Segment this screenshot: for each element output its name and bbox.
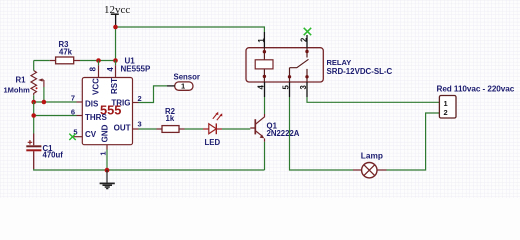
svg-text:SRD-12VDC-SL-C: SRD-12VDC-SL-C <box>327 67 393 76</box>
IC U1 NE555P 555 timer <box>69 57 151 156</box>
wire DIS net <box>34 101 77 103</box>
node junction 12vcc <box>113 25 118 30</box>
pin 7 DIS <box>77 101 83 103</box>
resistor R2 <box>157 107 185 133</box>
relay SRD-12VDC-SL-C <box>246 28 393 97</box>
svg-text:NE555P: NE555P <box>121 65 151 74</box>
svg-text:CV: CV <box>85 130 97 139</box>
wire TRIG to sensor <box>139 86 168 103</box>
svg-text:1: 1 <box>181 82 185 91</box>
svg-text:TRIG: TRIG <box>111 99 130 108</box>
node junction THRS <box>31 113 36 118</box>
wire THRS net <box>34 115 77 117</box>
wire R3 left <box>34 60 50 62</box>
supply 12vcc <box>104 4 130 27</box>
wire R2 to LED <box>185 128 204 130</box>
no-connect X on CV <box>69 134 75 140</box>
node junction wiper <box>42 100 47 105</box>
wire relay pin3 to connector pin1 <box>307 97 439 102</box>
pin 2 TRIG <box>133 102 139 104</box>
wire collector <box>264 97 266 114</box>
svg-text:DIS: DIS <box>85 100 99 109</box>
svg-text:1k: 1k <box>166 114 175 123</box>
relay pin 4 <box>264 82 266 97</box>
svg-text:4: 4 <box>257 84 266 89</box>
wire left drop <box>33 102 35 134</box>
wire LED to Q1 <box>222 128 250 130</box>
node junction pin4 <box>113 58 118 63</box>
transistor Q1 <box>250 114 300 142</box>
pin 8 VCC <box>98 65 100 77</box>
wire 12vcc rail <box>116 27 265 32</box>
svg-text:47k: 47k <box>59 48 73 57</box>
svg-text:1: 1 <box>444 99 448 108</box>
pin 6 THRS <box>77 115 83 117</box>
wire OUT to R2 <box>139 128 157 130</box>
potentiometer R1 <box>4 71 44 96</box>
wire GND drop <box>106 150 108 171</box>
svg-text:3: 3 <box>299 84 308 89</box>
svg-text:1Mohm: 1Mohm <box>4 86 31 95</box>
wire R3 right to pins <box>80 60 116 62</box>
wire lamp to connector pin2 <box>387 113 440 170</box>
svg-text:470uf: 470uf <box>43 150 64 159</box>
pin 5 CV <box>73 136 82 138</box>
svg-text:7: 7 <box>71 94 75 103</box>
svg-text:4: 4 <box>106 67 115 72</box>
svg-text:1: 1 <box>98 151 107 155</box>
svg-text:VCC: VCC <box>91 78 100 95</box>
svg-text:OUT: OUT <box>114 124 131 133</box>
wire pin5 to lamp <box>290 97 354 170</box>
wire R1 top <box>33 61 35 71</box>
svg-text:Sensor: Sensor <box>174 73 200 82</box>
svg-text:2: 2 <box>138 94 142 103</box>
svg-text:8: 8 <box>89 66 98 71</box>
node junction ground <box>105 168 110 173</box>
svg-text:6: 6 <box>71 108 75 117</box>
pin 4 RST <box>115 65 117 77</box>
relay pin 5 <box>289 82 291 97</box>
svg-text:LED: LED <box>205 138 221 147</box>
pin 1 GND <box>106 145 108 150</box>
no-connect X on pin 2 <box>304 28 312 35</box>
svg-text:2: 2 <box>444 108 448 117</box>
resistor R3 <box>50 40 80 64</box>
svg-text:3: 3 <box>138 120 142 129</box>
svg-text:RST: RST <box>110 78 119 94</box>
wire C1 bottom <box>34 169 265 170</box>
relay pin 3 <box>306 82 308 97</box>
ground <box>100 170 115 189</box>
wire wiper down <box>43 87 45 102</box>
node junction pin8 <box>96 58 101 63</box>
svg-text:Lamp: Lamp <box>361 151 383 161</box>
connector Sensor <box>167 73 200 91</box>
svg-text:THRS: THRS <box>85 113 107 122</box>
svg-text:R1: R1 <box>16 76 27 85</box>
svg-text:2N2222A: 2N2222A <box>267 129 300 138</box>
connector mains Red 110vac - 220vac <box>437 85 515 118</box>
relay pin 1 <box>263 32 265 48</box>
relay coil <box>263 48 265 82</box>
relay switch <box>306 48 308 58</box>
svg-text:GND: GND <box>101 124 110 142</box>
pin 3 OUT <box>133 128 139 130</box>
svg-text:2: 2 <box>299 37 308 42</box>
wire emitter to rail <box>264 142 266 170</box>
wire R1 bottom <box>33 95 35 102</box>
node junction R1 <box>31 100 36 105</box>
wire 12vcc drop <box>115 27 117 61</box>
relay pin 2 <box>306 35 308 48</box>
capacitor C1 <box>26 134 63 170</box>
LED <box>203 112 222 147</box>
svg-text:5: 5 <box>282 84 291 89</box>
svg-text:1: 1 <box>257 38 266 43</box>
svg-text:RELAY: RELAY <box>327 58 352 67</box>
lamp <box>353 151 387 178</box>
svg-text:Red 110vac - 220vac: Red 110vac - 220vac <box>437 85 515 94</box>
